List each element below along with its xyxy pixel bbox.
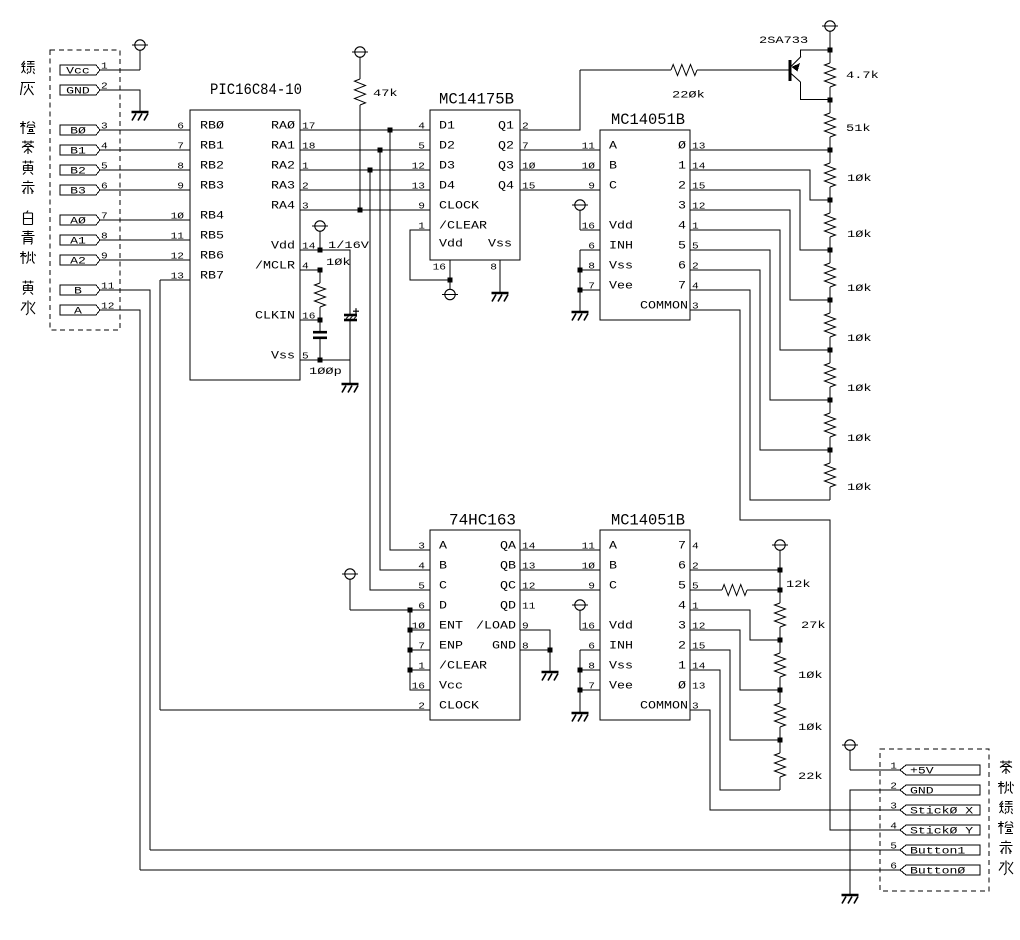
svg-text:RB1: RB1: [200, 141, 224, 153]
junction /LOAD-GND: [548, 648, 553, 653]
svg-text:B3: B3: [70, 187, 86, 198]
resistor 22k: [779, 740, 781, 753]
junction chain1 node 250: [828, 248, 833, 253]
wire GND pin: [520, 649, 550, 651]
svg-text:INH: INH: [609, 241, 633, 253]
svg-text:Vcc: Vcc: [439, 681, 463, 693]
svg-text:3: 3: [678, 201, 686, 213]
wire +5V: [850, 769, 900, 771]
svg-text:A2: A2: [70, 257, 86, 268]
power symbol (U5 Vdd): [572, 600, 588, 610]
svg-text:B: B: [439, 561, 447, 573]
wire U3 ch4 to chain1 node 350: [690, 230, 830, 350]
svg-text:ENP: ENP: [439, 641, 463, 653]
wire U3 COMMON to Stick0 Y: [690, 310, 900, 830]
svg-text:Ø: Ø: [678, 681, 686, 693]
svg-text:11: 11: [582, 141, 596, 152]
power symbol (Vcc): [132, 40, 148, 50]
svg-text:D4: D4: [439, 181, 455, 193]
junction CLKIN: [318, 318, 323, 323]
svg-text:4: 4: [678, 221, 686, 233]
wire Q4 to U3 C: [520, 189, 600, 191]
svg-text:D2: D2: [439, 141, 455, 153]
svg-text:A: A: [74, 307, 82, 318]
wire RA0 to D1: [300, 129, 430, 131]
connector J1 pin 11 flag B: [60, 285, 100, 295]
junction U3 Vss: [578, 268, 583, 273]
svg-text:Vee: Vee: [609, 681, 633, 693]
junction chain1 node 300: [828, 298, 833, 303]
wire RB7 riser to 74HC163 CLOCK: [160, 279, 190, 281]
svg-text:RBØ: RBØ: [200, 121, 224, 133]
wire riser A to 74HC163 A: [390, 130, 430, 550]
svg-text:5: 5: [418, 581, 425, 592]
svg-text:QB: QB: [500, 561, 516, 573]
wire Vdd node to bypass cap: [320, 250, 350, 314]
junction chain2 node 740: [778, 738, 783, 743]
wire RA4 to CLOCK: [300, 209, 430, 211]
wire /LOAD tie to GND: [520, 630, 550, 672]
connector J2 pin 2 flag GND: [900, 785, 980, 795]
ground (J2): [842, 895, 859, 904]
svg-text:1Ø: 1Ø: [582, 561, 596, 572]
wire Button0 from A: [140, 869, 900, 871]
svg-text:Q1: Q1: [498, 121, 514, 133]
wire GND to ground (J2): [850, 790, 900, 895]
svg-text:1Ø: 1Ø: [171, 211, 185, 222]
svg-text:COMMON: COMMON: [640, 701, 688, 713]
svg-text:4: 4: [678, 601, 686, 613]
wire Q2 to U3 A: [520, 149, 600, 151]
resistor 51k: [829, 100, 831, 113]
connector J2 pin 1 flag +5V: [900, 765, 980, 775]
svg-text:RB4: RB4: [200, 211, 224, 223]
wire U5 ch2 to node 740: [690, 650, 780, 740]
svg-text:Vdd: Vdd: [609, 621, 633, 633]
svg-text:RA2: RA2: [271, 161, 295, 173]
junction chain1 node 400: [828, 398, 833, 403]
wire Q3 to U3 B: [520, 169, 600, 171]
svg-text:B1: B1: [70, 147, 86, 158]
svg-text:1Øk: 1Øk: [847, 173, 872, 185]
wire RA3 to D4: [300, 189, 430, 191]
junction ENT: [408, 628, 413, 633]
svg-text:2: 2: [890, 781, 897, 792]
svg-text:47k: 47k: [373, 88, 398, 100]
wire-colour kanji column (right): [1000, 761, 1012, 775]
svg-text:Q3: Q3: [498, 161, 514, 173]
ground (U3): [572, 312, 589, 321]
connector J2 pin 5 flag Button1: [900, 845, 980, 855]
junction chain2 node 640: [778, 638, 783, 643]
svg-text:AØ: AØ: [70, 216, 86, 228]
svg-text:9: 9: [177, 181, 184, 192]
svg-text:Q2: Q2: [498, 141, 514, 153]
connector J1 pin 8 flag A1: [60, 235, 100, 245]
svg-text:GND: GND: [910, 787, 934, 798]
svg-text:13: 13: [692, 681, 706, 692]
svg-text:1: 1: [890, 761, 897, 772]
wire U3 ch1 to chain1 node 200: [690, 170, 830, 200]
svg-text:BØ: BØ: [70, 126, 86, 138]
wire B2 to PIC: [100, 169, 190, 171]
wire QA to U5 A: [520, 549, 600, 551]
svg-text:RB6: RB6: [200, 251, 224, 263]
svg-text:8: 8: [490, 262, 497, 273]
svg-text:7: 7: [678, 541, 686, 553]
svg-text:2: 2: [678, 181, 686, 193]
svg-text:Vss: Vss: [609, 261, 633, 273]
junction /MCLR: [318, 268, 323, 273]
svg-text:1: 1: [678, 661, 686, 673]
resistor 220k: [580, 69, 671, 71]
wire U5 ch1 to chain2 bottom: [690, 670, 780, 790]
svg-text:16: 16: [433, 262, 447, 273]
capacitor C2 100p: [319, 320, 321, 331]
junction Vss/100p: [318, 358, 323, 363]
U2 Vss pin 8 stub: [499, 260, 501, 293]
svg-text:CLOCK: CLOCK: [439, 201, 479, 213]
svg-text:3: 3: [678, 621, 686, 633]
junction chain1 node 200: [828, 198, 833, 203]
junction Vdd//CLEAR: [448, 278, 453, 283]
svg-text:Vee: Vee: [609, 281, 633, 293]
svg-text:9: 9: [418, 201, 425, 212]
transistor Q1 2SA733 (PNP): [790, 50, 828, 100]
svg-text:Vdd: Vdd: [439, 239, 463, 251]
wire U5 ch6 to chain2: [690, 569, 780, 571]
connector J2 pin 6 flag Button0: [900, 865, 980, 875]
svg-text:GND: GND: [66, 87, 90, 98]
wire A1 to PIC: [100, 239, 190, 241]
junction Vdd node: [318, 248, 323, 253]
junction RA1/B riser: [378, 148, 383, 153]
svg-text:ENT: ENT: [439, 621, 463, 633]
resistor 10k (chain1 #4): [829, 300, 831, 313]
wire A2 to PIC: [100, 259, 190, 261]
svg-text:11: 11: [171, 231, 185, 242]
wire /CLEAR tie to Vdd: [410, 230, 450, 280]
junction chain2 node 570: [778, 568, 783, 573]
svg-text:INH: INH: [609, 641, 633, 653]
ground (J1 GND): [132, 112, 149, 121]
svg-text:12: 12: [412, 161, 426, 172]
svg-text:D1: D1: [439, 121, 455, 133]
junction RA0/A riser: [388, 128, 393, 133]
junction U5 Vee: [578, 688, 583, 693]
svg-text:GND: GND: [492, 641, 516, 653]
svg-text:D: D: [439, 601, 447, 613]
svg-text:4: 4: [890, 821, 897, 832]
resistor 10k (chain1 #2): [829, 200, 831, 213]
junction U5 Vss: [578, 668, 583, 673]
svg-text:11: 11: [522, 601, 536, 612]
svg-text:51k: 51k: [846, 123, 871, 135]
svg-text:C: C: [439, 581, 447, 593]
svg-text:RB2: RB2: [200, 161, 224, 173]
wire A to Button0 riser: [100, 310, 140, 870]
resistor 10k (/MCLR pull-up): [319, 270, 321, 283]
svg-text:Vdd: Vdd: [271, 241, 295, 253]
resistor 10k (chain2 a): [779, 640, 781, 653]
svg-text:12: 12: [171, 251, 185, 262]
resistor 4.7k: [829, 50, 831, 63]
wire power to D pin: [350, 609, 430, 611]
wire U3 ch2 to chain1 node 250: [690, 190, 830, 250]
svg-text:C: C: [609, 581, 617, 593]
power symbol (U3 Vdd): [572, 200, 588, 210]
wire U3 INH/Vss/Vee to ground: [580, 249, 600, 251]
svg-text:7: 7: [177, 141, 184, 152]
svg-text:1Øk: 1Øk: [847, 333, 872, 345]
power symbol (J2 +5V): [842, 740, 858, 750]
svg-text:1: 1: [678, 161, 686, 173]
svg-text:MC14051B: MC14051B: [611, 111, 685, 129]
wire Q1 to 220k: [520, 70, 580, 130]
wire QB to U5 B: [520, 569, 600, 571]
svg-text:B: B: [74, 287, 82, 298]
power symbol (47k pull-up): [352, 47, 368, 57]
wire RA2 to D3: [300, 169, 430, 171]
power symbol (PIC Vdd): [312, 221, 328, 231]
wire /MCLR to pull-up: [300, 269, 320, 271]
svg-text:27k: 27k: [801, 620, 826, 632]
svg-text:1Øk: 1Øk: [847, 229, 872, 241]
wire U5 Vdd: [580, 629, 600, 631]
svg-text:B2: B2: [70, 167, 86, 178]
junction /CLEAR tie: [408, 668, 413, 673]
resistor 10k (chain1 #7): [829, 450, 831, 463]
capacitor C1 1/16V electrolytic: [344, 308, 359, 320]
wire chain2 570-590: [779, 570, 781, 590]
svg-text:/CLEAR: /CLEAR: [439, 661, 487, 673]
svg-text:11: 11: [582, 541, 596, 552]
wire CLOCK from RB7 riser: [160, 709, 430, 711]
svg-text:RA4: RA4: [271, 201, 295, 213]
svg-text:Q4: Q4: [498, 181, 514, 193]
wire U5 ch3 to node 690: [690, 630, 780, 690]
svg-text:RAØ: RAØ: [271, 121, 295, 133]
svg-text:2: 2: [678, 641, 686, 653]
svg-text:PIC16C84-10: PIC16C84-10: [210, 81, 302, 99]
ground (U2 Vss): [492, 293, 509, 302]
svg-text:/LOAD: /LOAD: [476, 621, 516, 633]
wire Vdd pin to node: [300, 249, 320, 251]
svg-text:1Øk: 1Øk: [847, 383, 872, 395]
svg-text:2SA733: 2SA733: [759, 35, 808, 47]
svg-text:B: B: [609, 561, 617, 573]
IC U2 MC14175B body: [430, 110, 520, 260]
svg-text:RB5: RB5: [200, 231, 224, 243]
svg-text:RA3: RA3: [271, 181, 295, 193]
resistor 12k: [690, 589, 722, 591]
IC U1 PIC16C84-10 body: [190, 110, 300, 380]
svg-text:QC: QC: [500, 581, 516, 593]
wire-colour kanji column (left): [22, 61, 35, 74]
wire U5 INH/Vss/Vee to ground: [580, 649, 600, 651]
connector J1 pin 12 flag A: [60, 305, 100, 315]
wire bypass cap to ground: [349, 321, 351, 384]
wire U3 ch7 to chain1 bottom: [690, 290, 830, 500]
svg-text:COMMON: COMMON: [640, 301, 688, 313]
connector J2 pin 3 flag Stick0 X: [900, 805, 980, 815]
svg-text:74HC163: 74HC163: [449, 512, 516, 530]
svg-text:22Øk: 22Øk: [672, 90, 705, 102]
svg-text:5: 5: [678, 241, 686, 253]
power symbol (U4 D/ENT/ENP//CLEAR/Vcc pull-up): [342, 569, 358, 579]
wire B1 to PIC: [100, 149, 190, 151]
connector J1 pin 2 flag GND: [60, 85, 100, 95]
svg-text:ButtonØ: ButtonØ: [910, 866, 965, 878]
wire tie column to Vcc: [410, 610, 430, 690]
power symbol (resistor chain 2): [772, 540, 788, 550]
svg-text:MC14175B: MC14175B: [439, 91, 514, 109]
wire A0 to PIC: [100, 219, 190, 221]
svg-text:C: C: [609, 181, 617, 193]
svg-text:QA: QA: [500, 541, 516, 553]
wire B to Button1 riser: [100, 290, 150, 850]
wire U3 ch3 to chain1 node 300: [690, 210, 830, 300]
IC U4 74HC163 body: [430, 530, 520, 720]
svg-text:/MCLR: /MCLR: [255, 261, 295, 273]
left connector dashed box J1: [50, 50, 120, 330]
junction ENP: [408, 648, 413, 653]
svg-text:Vss: Vss: [271, 351, 295, 363]
svg-text:Vcc: Vcc: [66, 67, 90, 78]
svg-text:CLKIN: CLKIN: [255, 311, 295, 323]
svg-text:3: 3: [418, 541, 425, 552]
svg-text:1/16V: 1/16V: [328, 240, 370, 252]
svg-text:Vss: Vss: [488, 239, 512, 251]
svg-text:1ØØp: 1ØØp: [309, 366, 342, 378]
resistor 10k (chain1 #6): [829, 400, 831, 413]
wire QC to U5 C: [520, 589, 600, 591]
svg-text:QD: QD: [500, 601, 516, 613]
resistor 47k: [359, 57, 361, 79]
resistor 10k (chain2 b): [779, 690, 781, 703]
wire U5 COMMON to Stick0 X: [690, 710, 900, 810]
junction chain1 node 150: [828, 148, 833, 153]
ground (bypass cap): [342, 384, 359, 393]
junction chain2 node 590: [778, 588, 783, 593]
connector J1 pin 4 flag B1: [60, 145, 100, 155]
power symbol (U2 Vdd): [442, 289, 458, 299]
svg-text:Ø: Ø: [678, 141, 686, 153]
svg-text:22k: 22k: [798, 771, 823, 783]
wire RA1 to D2: [300, 149, 430, 151]
svg-text:A1: A1: [70, 237, 86, 248]
svg-text:RA1: RA1: [271, 141, 295, 153]
U2 Vdd pin 16 stub: [449, 260, 451, 289]
svg-text:1Ø: 1Ø: [582, 161, 596, 172]
svg-text:Button1: Button1: [910, 847, 965, 858]
connector J1 pin 9 flag A2: [60, 255, 100, 265]
svg-text:5: 5: [418, 141, 425, 152]
svg-text:D3: D3: [439, 161, 455, 173]
svg-text:6: 6: [678, 561, 686, 573]
junction D column: [408, 608, 413, 613]
svg-text:1Øk: 1Øk: [847, 433, 872, 445]
svg-text:A: A: [609, 541, 617, 553]
connector J1 pin 6 flag B3: [60, 185, 100, 195]
wire riser C to 74HC163 C: [370, 170, 430, 590]
wire U3 ch6 to chain1 node 450: [690, 270, 830, 450]
resistor 10k (chain1 #3): [829, 250, 831, 263]
svg-text:1Øk: 1Øk: [847, 283, 872, 295]
wire U3 Vdd: [580, 229, 600, 231]
resistor 27k: [779, 590, 781, 603]
svg-text:/CLEAR: /CLEAR: [439, 221, 487, 233]
svg-text:4: 4: [692, 541, 699, 552]
ground (U4 GND//LOAD): [542, 672, 559, 681]
connector J1 pin 5 flag B2: [60, 165, 100, 175]
connector J2 pin 4 flag Stick0 Y: [900, 825, 980, 835]
wire B0 to PIC: [100, 129, 190, 131]
svg-text:4: 4: [418, 121, 425, 132]
svg-text:RB7: RB7: [200, 271, 224, 283]
junction chain1 node 450: [828, 448, 833, 453]
wire U5 ch4 to node 640: [690, 610, 780, 640]
wire U3 ch0 to chain1: [690, 149, 830, 151]
connector J1 pin 1 flag Vcc: [60, 65, 100, 75]
connector J1 pin 7 flag A0: [60, 215, 100, 225]
svg-text:6: 6: [177, 121, 184, 132]
junction RA2/C riser: [368, 168, 373, 173]
svg-text:6: 6: [678, 261, 686, 273]
wire U3 ch5 to chain1 node 400: [690, 250, 830, 400]
wire Vcc to power: [100, 69, 140, 71]
wire GND to ground: [100, 90, 140, 112]
svg-text:RB3: RB3: [200, 181, 224, 193]
svg-text:9: 9: [588, 581, 595, 592]
svg-text:1Øk: 1Øk: [798, 670, 823, 682]
svg-text:StickØ Y: StickØ Y: [910, 826, 973, 838]
resistor 10k (chain1 #5): [829, 350, 831, 363]
svg-text:5: 5: [678, 581, 686, 593]
junction RA4/47k: [358, 208, 363, 213]
wire Button1 from B: [150, 849, 900, 851]
IC U3 MC14051B body: [600, 130, 690, 320]
wire chain1 top: [829, 45, 831, 63]
right connector dashed box J2: [880, 749, 989, 891]
junction chain1 node 350: [828, 348, 833, 353]
svg-text:7: 7: [678, 281, 686, 293]
svg-text:A: A: [439, 541, 447, 553]
junction emitter: [828, 48, 833, 53]
svg-text:4.7k: 4.7k: [846, 70, 879, 82]
IC U5 MC14051B body: [600, 530, 690, 720]
svg-text:CLOCK: CLOCK: [439, 701, 479, 713]
svg-text:3: 3: [890, 801, 897, 812]
svg-text:13: 13: [412, 181, 426, 192]
junction chain2 node 690: [778, 688, 783, 693]
svg-text:A: A: [609, 141, 617, 153]
svg-text:12k: 12k: [786, 579, 811, 591]
svg-text:9: 9: [588, 181, 595, 192]
svg-text:StickØ X: StickØ X: [910, 806, 973, 818]
svg-text:+5V: +5V: [910, 767, 934, 778]
junction collector: [828, 98, 833, 103]
svg-text:8: 8: [177, 161, 184, 172]
svg-text:1Øk: 1Øk: [798, 722, 823, 734]
wire B3 to PIC: [100, 189, 190, 191]
junction U3 Vee: [578, 288, 583, 293]
ground (U5): [572, 713, 589, 722]
svg-text:4: 4: [418, 561, 425, 572]
svg-text:MC14051B: MC14051B: [611, 512, 685, 530]
svg-text:Vdd: Vdd: [609, 221, 633, 233]
wire riser B to 74HC163 B: [380, 150, 430, 570]
